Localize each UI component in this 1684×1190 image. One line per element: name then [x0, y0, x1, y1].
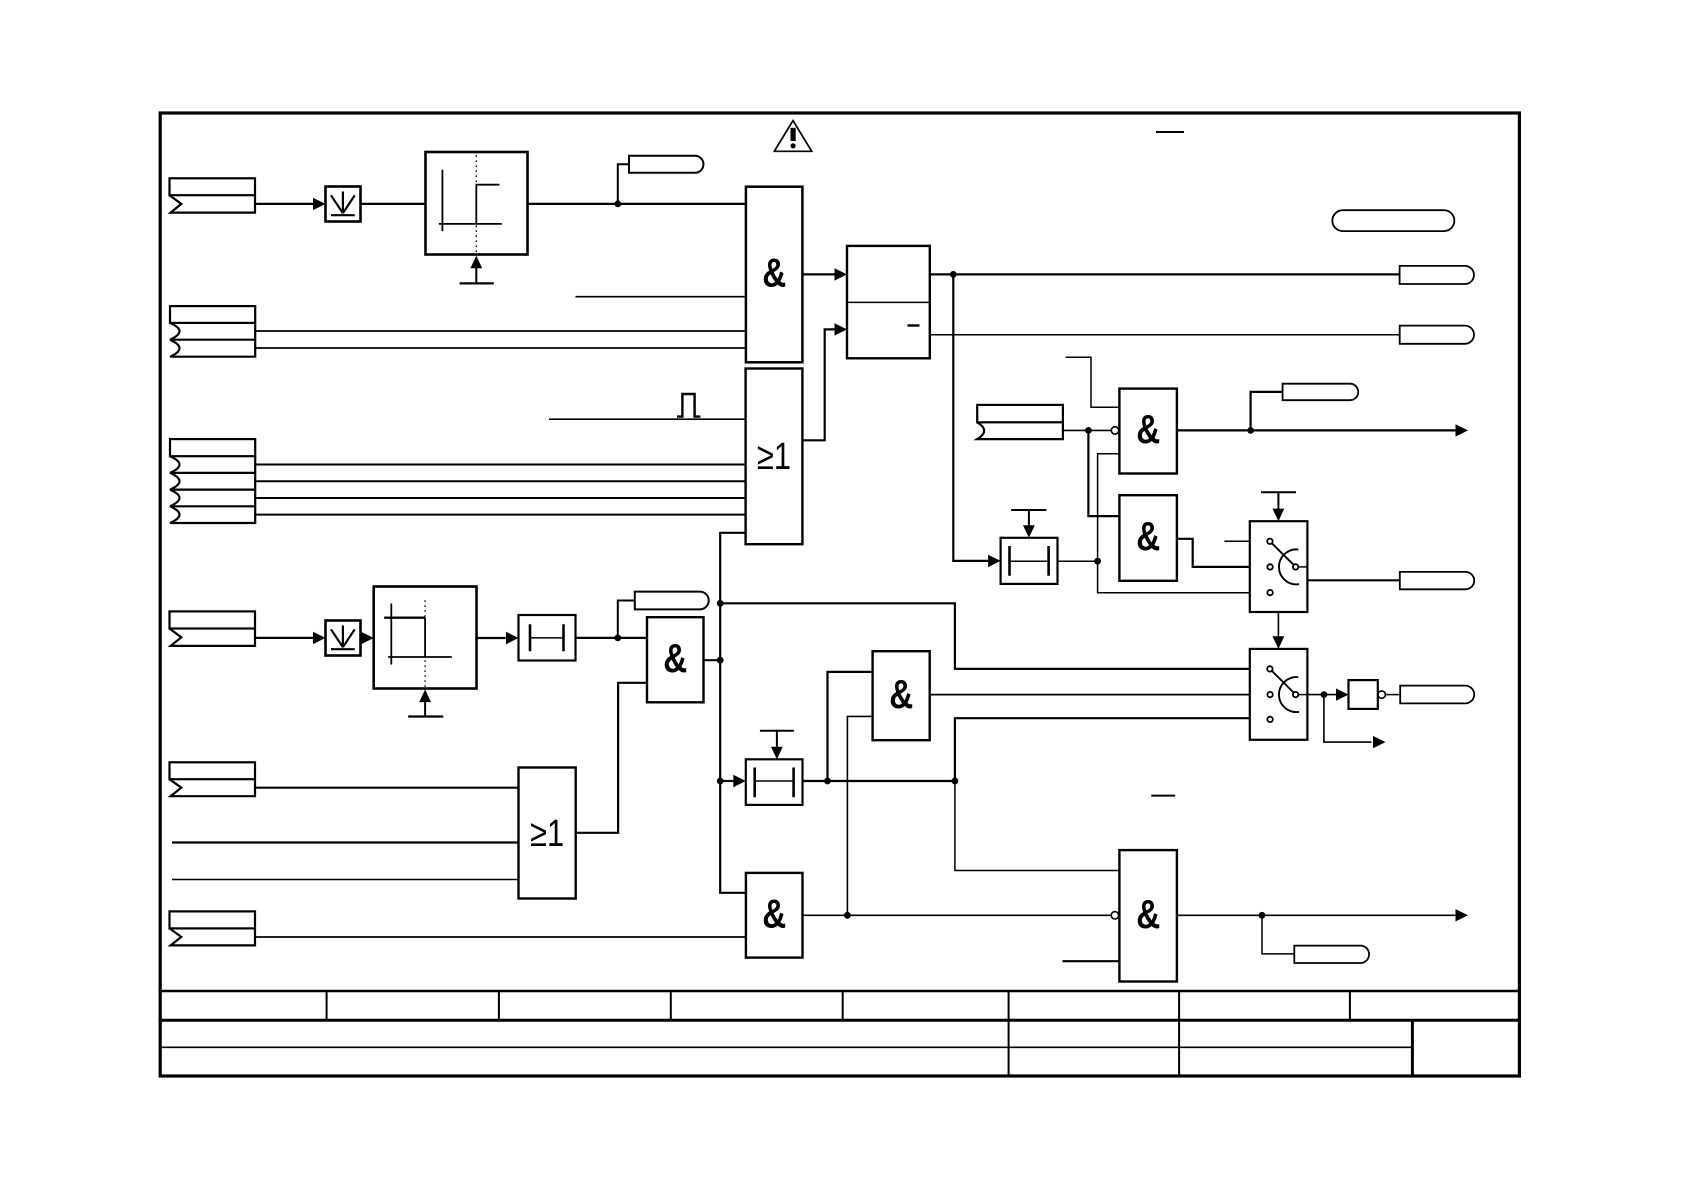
wire G6 to SW2 [930, 694, 1250, 696]
hysteresis block H2 [374, 587, 477, 689]
wire T3 to G7 [955, 781, 1120, 871]
wire X2b to G1 [255, 347, 746, 349]
wire T2 to G2 [576, 637, 648, 639]
wire M1 output Qn [930, 334, 1400, 336]
connector pill P2 [618, 592, 709, 638]
stub wire to G1 [576, 296, 746, 298]
parameter arrow under H2 [408, 690, 443, 717]
AND gate G6 [873, 651, 930, 740]
dash label remnant top [1156, 131, 1184, 133]
AND gate G2 [647, 617, 704, 702]
wire G4 to SW1 [1177, 539, 1250, 567]
timer T3 [746, 759, 803, 805]
selector switch SW1 [1250, 521, 1308, 612]
connector pill P1 [618, 156, 704, 204]
selector switch SW2 [1250, 649, 1308, 740]
parameter arrow above T1 [1011, 510, 1046, 538]
wire X5 to G4 [1088, 430, 1119, 516]
output connector K3 [1400, 572, 1474, 589]
title block [159, 991, 1521, 1076]
svg-text:&: & [762, 890, 786, 936]
arrow SW1 to SW2 [1273, 612, 1285, 649]
output connector K4 [1400, 686, 1474, 704]
svg-text:&: & [1136, 891, 1160, 937]
RS memory M1 [847, 246, 930, 358]
wire SW2 output [1307, 688, 1348, 700]
standalone pill P4 [1332, 210, 1454, 231]
branch T1 to SW1 [1098, 561, 1250, 593]
wire H1 to G1 [528, 203, 746, 205]
wire M1 output Q [930, 273, 1400, 275]
stub wire to G7 [1063, 960, 1120, 962]
input flag X2 [170, 306, 255, 357]
drawing frame [160, 113, 1519, 1076]
wire to OR2 second input [172, 841, 519, 843]
wire T3 output [803, 778, 959, 785]
wire G3 output with arrow [1177, 424, 1468, 436]
wire B1 to H1 [361, 203, 426, 205]
wire M1 to T1 with arrow [953, 274, 1000, 567]
OR gate R2 [519, 768, 576, 899]
wire G1 to M1 with arrow [802, 268, 847, 280]
wire G5 output to G7 with inversion [803, 912, 1119, 919]
wire X2a to G1 [255, 330, 746, 332]
wires X3 to OR1 [255, 465, 745, 515]
input flag X3 [170, 439, 255, 523]
wire to OR2 third input [172, 879, 519, 881]
AND gate G1 [746, 187, 803, 363]
NOT block N1 [1349, 680, 1401, 709]
output connector K2 [1400, 326, 1474, 344]
wire G7 output with arrow [1177, 909, 1468, 921]
input flag X5 [977, 405, 1063, 439]
stub wire to SW1 [1225, 540, 1250, 542]
hysteresis block H1 [426, 152, 528, 255]
branch wire with arrow below SW2 [1324, 695, 1386, 749]
junction dot [614, 201, 621, 208]
wire OR1 to M1 reset with arrow [802, 323, 847, 440]
warning triangle [774, 121, 811, 152]
connector pill P5 [1294, 946, 1369, 963]
arrow into T3 [720, 775, 746, 787]
OR gate R1 [746, 369, 803, 545]
trunk wire from G2 output [704, 533, 746, 893]
svg-text:&: & [1136, 513, 1160, 559]
input flag X4 [170, 611, 256, 646]
arrow B2 to H2 [361, 632, 374, 644]
pulse glyph [677, 394, 700, 417]
AND gate G5 [746, 873, 803, 958]
svg-text:≥1: ≥1 [530, 813, 564, 855]
wire H2 to T2 with arrow [477, 632, 519, 644]
parameter arrow above T3 [760, 731, 794, 760]
pulse line to OR1 [549, 418, 746, 420]
dash label remnant bottom [1151, 795, 1175, 797]
timer T2 [519, 615, 576, 661]
wire X1 to B1 with arrow [255, 198, 326, 210]
junction dot [614, 635, 621, 642]
AND gate G3 [1119, 389, 1177, 474]
wire OR2 to G2 [576, 683, 647, 833]
branch G7 to P5 [1262, 915, 1294, 954]
long branch wire to SW2 [720, 603, 1250, 669]
AND gate G4 [1119, 495, 1177, 581]
input flag X7 [170, 911, 256, 945]
wire SW1 to K3 [1307, 579, 1399, 581]
wire X7 to G5 [255, 936, 746, 938]
svg-text:&: & [663, 635, 687, 681]
timer T1 [1001, 538, 1058, 584]
wire T1 output [1058, 558, 1102, 565]
AND gate G7 [1119, 850, 1177, 981]
svg-text:&: & [1136, 406, 1160, 452]
wire X4 to B2 with arrow [255, 632, 326, 644]
wire G5 to G6 [847, 716, 872, 915]
junction dot [950, 271, 957, 278]
svg-text:&: & [762, 250, 786, 296]
parameter arrow above SW1 [1261, 492, 1296, 521]
input flag X1 [170, 178, 256, 212]
output connector K1 [1400, 266, 1474, 284]
connector pill P3 [1251, 384, 1359, 431]
svg-text:&: & [889, 671, 913, 717]
parameter arrow under H1 [460, 256, 494, 284]
wire X6 to OR2 [255, 787, 519, 789]
min monitor B1 [326, 187, 361, 222]
stub wire to G3 top input [1066, 357, 1120, 407]
input flag X6 [170, 762, 256, 796]
min monitor B2 [326, 621, 361, 656]
wire T3 to SW2 [955, 718, 1250, 781]
svg-text:≥1: ≥1 [757, 436, 791, 478]
branch T1 to G3 [1098, 454, 1120, 562]
wire T3 to G6 [828, 672, 873, 781]
wire X5 to G3 with inversion [1063, 427, 1119, 434]
